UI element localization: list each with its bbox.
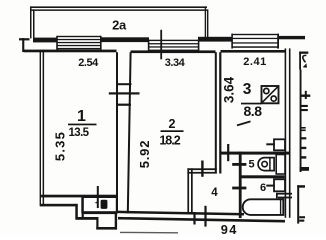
entry steps line A [40, 204, 76, 207]
room 2 fraction line [161, 130, 184, 132]
svg-text:5.92: 5.92 [137, 140, 152, 169]
stair tick equals lower [301, 130, 306, 132]
svg-text:8.8: 8.8 [244, 103, 263, 119]
wall kitchen/WC (horizontal) [220, 152, 291, 155]
bottom wall tick right [204, 206, 206, 227]
divider wall rooms 1/2 right line (slightly slanted) [128, 52, 131, 213]
window W1 room1 (hatched) [56, 36, 101, 51]
kitchen door tick [227, 144, 229, 161]
stair side wall line B [300, 70, 302, 173]
svg-text:3: 3 [243, 81, 252, 98]
top inner wall line segment (left span) [24, 50, 117, 53]
bottom wall outer line [118, 218, 285, 221]
bathtub outline [243, 199, 284, 215]
svg-text:18.2: 18.2 [159, 134, 180, 148]
divider wall rung lower (door jamb) [116, 104, 131, 106]
bottom wall tick left [193, 212, 195, 225]
hallway left wall (double line) [187, 168, 192, 213]
svg-text:2.54: 2.54 [78, 57, 99, 69]
toilet cistern divider [269, 158, 271, 171]
entry bump bottom [96, 227, 117, 230]
door leaf tick across divider wall [109, 92, 140, 94]
bottom wall inner line [117, 212, 244, 214]
WC door leaf tick [232, 163, 246, 166]
kitchen door leaf dash [237, 121, 251, 125]
vent box upper (kitchen wall) [266, 139, 285, 150]
stair tick T-bar horizontal [301, 95, 310, 97]
stove icon square [262, 86, 279, 103]
stair tick T-bar vertical [305, 91, 307, 99]
closet bottom line [82, 211, 117, 214]
faint stair landing line [120, 231, 178, 233]
entry steps riser 2 [96, 218, 98, 229]
top outer wall pier between W2 and W3 [198, 37, 233, 42]
entry steps bump top line [76, 217, 99, 220]
WC left wall [239, 152, 242, 219]
stove icon diagonal [262, 87, 278, 103]
top outer wall pier between W1 and W2 [101, 37, 150, 42]
window W2 room2 (hatched) [148, 40, 200, 52]
stair tick pair bar 2 [301, 109, 308, 111]
stair side bracket C vertical [297, 185, 299, 223]
divider wall rooms 1/2 left line [116, 52, 118, 213]
stair foot bar [300, 167, 309, 171]
top outer wall segment right of W3 to stair side [278, 36, 306, 39]
svg-text:3.64: 3.64 [221, 76, 236, 103]
stair tick 1 [301, 137, 307, 139]
right outer wall (double line) [285, 48, 291, 217]
room 2 door leaf tick [201, 161, 203, 177]
svg-text:5.35: 5.35 [53, 131, 68, 161]
stove icon burner top-left [264, 88, 269, 93]
svg-text:2.41: 2.41 [243, 56, 266, 68]
entry bump right riser [115, 214, 117, 230]
stove icon burner bottom-right [271, 96, 276, 101]
vent box lower (bathroom wall) [266, 179, 285, 191]
svg-text:2a: 2a [112, 18, 127, 33]
stair side bracket C bar 1 [299, 216, 305, 218]
top outer wall segment left of window W1 [33, 38, 58, 43]
toilet bowl circle [262, 161, 267, 166]
toilet bowl outline [258, 158, 274, 171]
wall end tick top-left [22, 38, 24, 52]
window W3 kitchen (hatched) [231, 34, 279, 49]
balcony 2a right edge (double line) [205, 6, 209, 38]
svg-text:1: 1 [77, 108, 86, 125]
stair tick 3 [301, 156, 307, 158]
svg-text:4: 4 [211, 187, 218, 199]
stair side bracket C top bar [297, 185, 305, 188]
wall end tick top cap [19, 38, 30, 40]
top inner wall line segment (right span) [221, 50, 286, 53]
closet 1a box [82, 197, 117, 212]
closet left edge extension [82, 196, 84, 220]
kitchen fraction line [241, 103, 262, 105]
left outer wall of room 1 (double line) [40, 50, 45, 207]
closet label a box [101, 200, 108, 209]
top inner wall line segment (centre span) [131, 50, 216, 53]
bathroom door leaf tick [232, 187, 246, 190]
room 2 bottom wall (double line) [187, 168, 216, 173]
vent shaft tall box [276, 155, 285, 175]
stair side bracket C bar 2 [299, 220, 304, 222]
tick across closet top (reads as 1) [97, 186, 99, 208]
svg-text:5: 5 [248, 158, 254, 170]
window W2 centre tick [160, 30, 162, 60]
balcony 2a top edge (double line) [30, 6, 207, 10]
divider wall rung upper (door jamb) [116, 83, 132, 85]
svg-text:a: a [102, 199, 107, 209]
bracket below bathroom vent [276, 193, 292, 199]
wall WC/bathroom [242, 175, 285, 178]
bathtub inner end line [280, 200, 282, 214]
svg-text:13.5: 13.5 [69, 127, 90, 139]
wall room2/kitchen left line [215, 52, 217, 173]
room 1 fraction line [68, 124, 97, 126]
wall room2/kitchen right line [219, 52, 221, 173]
flag of the 1 [95, 202, 97, 204]
svg-text:6: 6 [260, 182, 266, 194]
stair side bracket A [299, 52, 308, 70]
stair side bracket A hook [303, 55, 307, 62]
svg-text:94: 94 [221, 222, 238, 235]
stair side bracket A arrowhead [303, 63, 307, 67]
stair tick equals upper [301, 127, 306, 129]
entry steps riser 1 [75, 204, 78, 220]
svg-text:2: 2 [169, 117, 176, 131]
stair tick pair bar 1 [301, 105, 308, 107]
room 1 bottom wall [41, 195, 118, 198]
stair tick 2 [301, 147, 307, 149]
svg-text:3.34: 3.34 [165, 57, 186, 69]
balcony 2a left edge (double line) [30, 6, 35, 38]
